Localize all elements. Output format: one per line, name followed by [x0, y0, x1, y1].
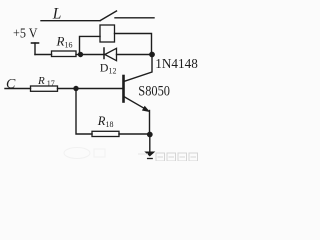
svg-text:1N4148: 1N4148: [155, 57, 198, 72]
wire: switch right contact: [115, 17, 154, 19]
watermark: [64, 148, 105, 159]
relay coil K: [100, 25, 115, 42]
node D: [147, 132, 153, 138]
svg-text:+5 V: +5 V: [13, 27, 38, 42]
wire: R18 to node D: [119, 133, 150, 135]
transistor Q1 base bar: [122, 76, 125, 102]
svg-text:C: C: [6, 77, 16, 92]
wire: node A to diode cathode: [81, 54, 105, 56]
node A: [78, 52, 83, 57]
ground: [144, 152, 155, 159]
resistor R17: [31, 86, 58, 91]
svg-text:S8050: S8050: [138, 83, 170, 99]
wire: +5V to R16: [35, 54, 52, 56]
wire: C input to R17: [5, 88, 31, 90]
node C: [73, 86, 78, 91]
wire: node D to ground: [149, 135, 151, 155]
wire: coil right lead down to node B: [115, 34, 152, 54]
wire: R16 to node A: [76, 54, 81, 56]
resistor R16: [52, 51, 77, 57]
wire: diode anode to node B: [117, 54, 153, 56]
svg-text:L: L: [52, 5, 62, 22]
wire: coil left lead down to node A: [80, 36, 101, 53]
+5V supply terminal: [32, 43, 39, 55]
wire: L rail to switch: [41, 20, 100, 22]
transistor Q1 collector lead: [124, 55, 152, 82]
wire: emitter down to node D: [149, 111, 151, 135]
wire: node C down to R18: [76, 89, 92, 135]
resistor R18: [92, 131, 119, 136]
switch S blade: [100, 11, 116, 21]
wire: node C to transistor base: [76, 88, 122, 90]
diode D12: [104, 48, 117, 61]
wire: R17 to node C: [58, 88, 77, 90]
node B: [149, 52, 155, 58]
transistor Q1 emitter lead with arrow: [124, 97, 150, 113]
